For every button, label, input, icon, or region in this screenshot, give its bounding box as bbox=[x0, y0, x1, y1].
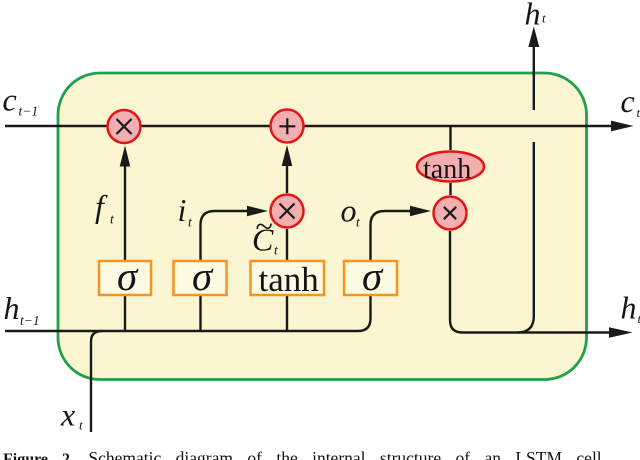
svg-text:c: c bbox=[3, 82, 17, 118]
svg-text:σ: σ bbox=[192, 253, 214, 299]
gate sigma4 (output gate) bbox=[344, 261, 397, 295]
wire: branch curving up from output line toward top h_t bbox=[518, 142, 534, 333]
wire + arrow: multiply node M2 up into add node bbox=[286, 164, 288, 193]
multiply node M3 (output) bbox=[434, 197, 467, 230]
svg-text:tanh: tanh bbox=[423, 154, 471, 185]
svg-text:tanh: tanh bbox=[259, 260, 320, 299]
wire + arrow: sigma4 up and right into multiply node M3 bbox=[371, 211, 413, 261]
svg-text:t−1: t−1 bbox=[20, 313, 40, 328]
wire: c line down into tanh ellipse bbox=[449, 126, 451, 150]
wire: tanh ellipse down to multiply node M3 bbox=[449, 183, 451, 195]
gate tanh box (candidate) bbox=[251, 261, 325, 295]
svg-text:~: ~ bbox=[256, 208, 273, 244]
wire: tanh box up to multiply node M2 bbox=[286, 229, 288, 261]
svg-text:σ: σ bbox=[362, 253, 384, 299]
LSTM cell body (rounded rectangle) bbox=[58, 73, 587, 380]
multiply node M2 (input x candidate) bbox=[271, 195, 304, 228]
wire: cell-state line c (top horizontal) bbox=[5, 125, 613, 127]
multiply node M1 (forget) bbox=[108, 110, 141, 143]
svg-text:h: h bbox=[4, 290, 20, 326]
wire + arrow: sigma2 up and right into multiply node M2 bbox=[201, 211, 251, 261]
svg-text:t: t bbox=[542, 11, 546, 26]
wire: hidden-state line h (bottom horizontal, left segment curving up into o-gate) bbox=[5, 295, 371, 331]
svg-text:h: h bbox=[525, 0, 541, 32]
wire: x_t input branch bbox=[91, 331, 102, 432]
svg-text:σ: σ bbox=[117, 253, 139, 299]
svg-text:o: o bbox=[341, 193, 357, 229]
wire: upper h_t segment above c line with arrowhead bbox=[533, 47, 535, 110]
svg-text:x: x bbox=[60, 397, 75, 433]
wire + arrow: sigma1 up to multiply node M1 bbox=[124, 162, 126, 261]
add node (cell state update) bbox=[271, 110, 304, 143]
svg-text:t: t bbox=[79, 418, 83, 433]
gate sigma2 (input gate) bbox=[174, 261, 227, 295]
svg-text:h: h bbox=[621, 290, 637, 326]
wire: input-gate feed below sigma2 bbox=[199, 295, 201, 331]
gate sigma1 (forget gate) bbox=[99, 261, 151, 295]
svg-text:Figure 2. Schematic diagram of: Figure 2. Schematic diagram of the inter… bbox=[3, 448, 602, 460]
wire: multiply node M3 down then right to h_t output, with arrowhead bbox=[450, 231, 610, 333]
svg-text:t−1: t−1 bbox=[19, 104, 39, 119]
wire: forget-gate feed below sigma1 bbox=[124, 295, 126, 331]
wire: candidate feed below tanh box bbox=[286, 295, 288, 331]
svg-text:t: t bbox=[637, 105, 640, 120]
arrowhead c_t right bbox=[611, 121, 634, 132]
tanh ellipse (output activation) bbox=[417, 152, 484, 182]
svg-text:i: i bbox=[178, 192, 187, 228]
svg-text:c: c bbox=[621, 83, 635, 119]
